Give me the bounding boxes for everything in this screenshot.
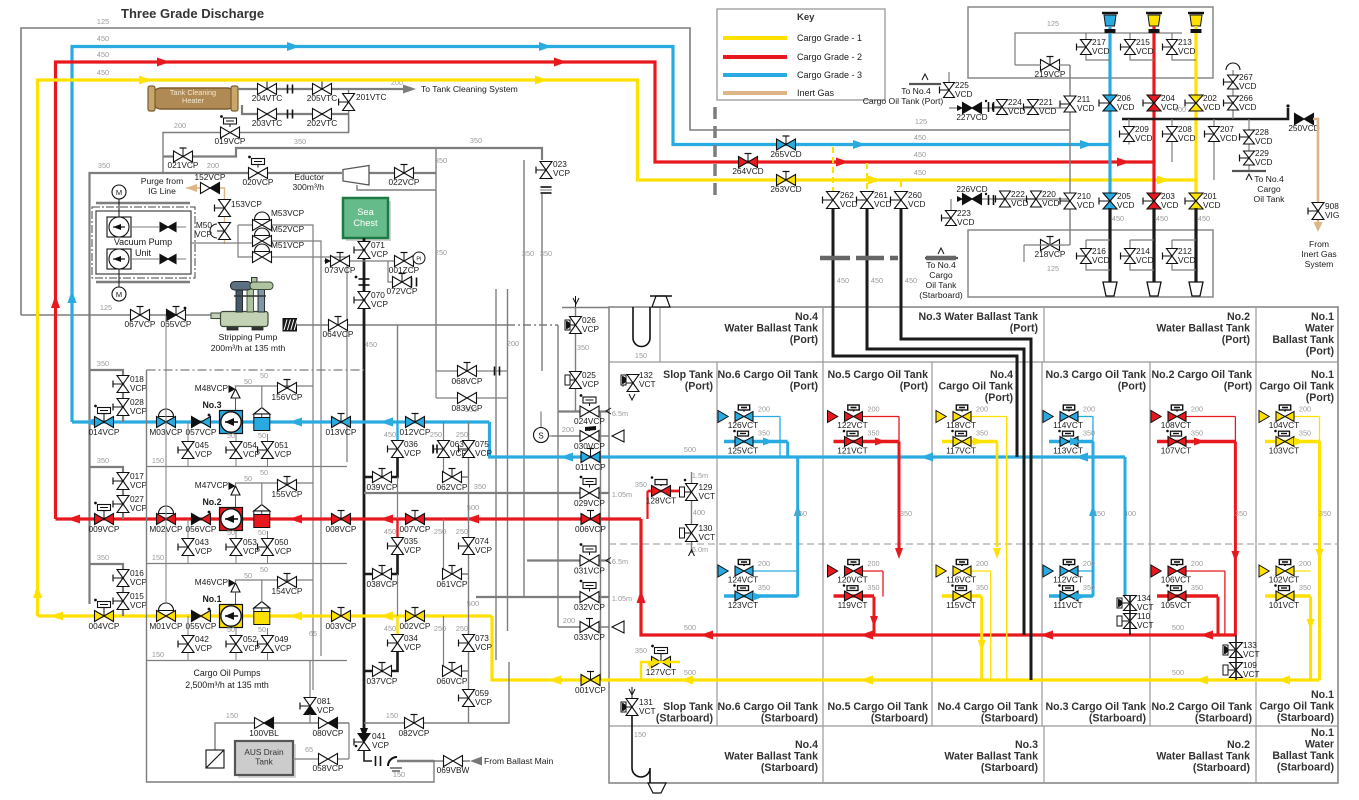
svg-text:105VCT: 105VCT — [1161, 600, 1191, 610]
svg-text:Unit: Unit — [135, 248, 152, 258]
svg-text:No.4: No.4 — [795, 311, 818, 323]
svg-text:200: 200 — [563, 616, 575, 625]
valve 202VTC — [313, 109, 323, 120]
svg-text:To No.4: To No.4 — [926, 260, 956, 270]
wire M-valve stem row 3 — [165, 316, 167, 409]
svg-text:Ballast Tank: Ballast Tank — [1272, 334, 1334, 346]
wire 032VCP stub — [476, 596, 609, 598]
valve 036VCP — [392, 441, 404, 450]
wire ladder blue stub — [396, 422, 398, 440]
svg-text:Cargo Grade - 3: Cargo Grade - 3 — [797, 70, 862, 80]
valve 214VCD — [1125, 249, 1136, 257]
svg-text:VCP: VCP — [475, 448, 493, 458]
svg-text:Oil Tank: Oil Tank — [1254, 194, 1286, 204]
valve 122VCT — [845, 412, 854, 422]
valve 155VCP — [278, 480, 288, 491]
valve 001VCP — [581, 675, 591, 686]
tank table inner column gooseneck — [659, 307, 661, 362]
svg-text:VCD: VCD — [1161, 200, 1179, 210]
wire black pipe 261 drop — [867, 209, 1024, 635]
valve 120VCT — [845, 566, 854, 576]
svg-text:350: 350 — [97, 359, 109, 368]
svg-text:060VCP: 060VCP — [437, 676, 468, 686]
strainer hatched box — [283, 319, 297, 332]
svg-text:450: 450 — [914, 133, 926, 142]
svg-text:(Port): (Port) — [790, 381, 818, 393]
wire 200 line 108VCT — [1186, 416, 1235, 418]
svg-text:113VCT: 113VCT — [1053, 446, 1083, 456]
valve 267VCD — [1228, 75, 1239, 82]
bypass loop top 217VCD — [1086, 33, 1110, 60]
wire ladder black Z row1 — [364, 652, 398, 671]
svg-text:VCD: VCD — [1039, 106, 1057, 116]
svg-text:VCP: VCP — [404, 448, 422, 458]
svg-text:50: 50 — [227, 625, 235, 634]
wire blue corner to tank mains — [490, 422, 1126, 457]
valve 263VCD — [777, 175, 787, 186]
svg-text:029VCP: 029VCP — [574, 498, 605, 508]
wire 200 line 106VCT — [1186, 570, 1225, 572]
wire drop 507 — [507, 289, 509, 631]
valve 132VCT — [627, 375, 639, 384]
valve 038VCP — [373, 569, 383, 580]
svg-text:VCP: VCP — [130, 406, 148, 416]
valve 119VCT — [845, 591, 854, 601]
svg-text:350: 350 — [97, 456, 109, 465]
svg-text:VCD: VCD — [1092, 255, 1110, 265]
svg-text:Slop Tank: Slop Tank — [663, 701, 713, 713]
valve 034VCP — [392, 635, 404, 644]
svg-text:Heater: Heater — [182, 96, 204, 105]
wire M51 line — [238, 225, 254, 257]
bellmouth funnel 1110 — [1103, 282, 1117, 296]
svg-text:VCP: VCP — [195, 546, 213, 556]
wire 350 line 111VCT — [1049, 594, 1093, 597]
svg-text:300m³/h: 300m³/h — [292, 182, 324, 192]
manifold lower box — [968, 230, 1213, 297]
valve 205VCD on riser — [1103, 193, 1117, 201]
wire yellow corner to bottom main — [492, 616, 1320, 680]
svg-text:(Starboard): (Starboard) — [656, 713, 713, 725]
valve 117VCT — [953, 437, 962, 447]
svg-text:450: 450 — [1156, 214, 1168, 223]
wire blue riser left — [72, 47, 1110, 423]
svg-text:Slop Tank: Slop Tank — [663, 369, 713, 381]
wire from ballast main — [397, 760, 434, 763]
svg-text:037VCP: 037VCP — [367, 676, 398, 686]
vacuum pump unit box — [96, 211, 191, 274]
valve 039VCP — [373, 472, 383, 483]
svg-text:VCP: VCP — [475, 697, 493, 707]
valve 073VCP — [331, 256, 341, 267]
svg-text:101VCT: 101VCT — [1269, 600, 1299, 610]
valve 110VCT — [1124, 614, 1137, 622]
svg-text:VCP: VCP — [195, 449, 213, 459]
svg-text:107VCT: 107VCT — [1161, 446, 1191, 456]
svg-text:VCT: VCT — [639, 379, 656, 389]
svg-text:350: 350 — [900, 509, 912, 518]
wire ladder black Z row3 — [364, 458, 398, 477]
svg-text:No.4: No.4 — [795, 739, 818, 751]
key line cargo grade 3 — [723, 73, 787, 77]
svg-text:VCD: VCD — [908, 199, 926, 209]
svg-text:003VCP: 003VCP — [326, 621, 357, 631]
valve 101VCT — [1276, 591, 1285, 601]
valve 134VCT — [1124, 596, 1137, 604]
svg-text:VIG: VIG — [1325, 210, 1339, 220]
funnel below table — [648, 783, 666, 793]
wire drop 524 — [523, 160, 525, 597]
valve 106VCT — [1168, 566, 1177, 576]
svg-text:150: 150 — [152, 456, 164, 465]
valve 072VCP — [393, 277, 403, 288]
svg-text:128VCT: 128VCT — [646, 496, 676, 506]
wire riser colored 1196 — [1194, 26, 1197, 208]
arrow from ballast main — [470, 757, 482, 766]
wire top frame 125 line — [21, 28, 1070, 315]
valve 203VCD on riser — [1147, 193, 1161, 201]
svg-text:250: 250 — [435, 248, 447, 257]
wire bypass row 1 — [236, 580, 314, 583]
wire 200 line 118VCT — [971, 416, 1007, 418]
svg-text:500: 500 — [684, 623, 696, 632]
wire 118 drop yellow — [1006, 417, 1008, 681]
wire 350 line 117VCT — [942, 440, 997, 443]
svg-text:021VCP: 021VCP — [168, 160, 199, 170]
svg-text:450: 450 — [837, 276, 849, 285]
svg-text:M: M — [116, 290, 122, 299]
funnel 030VCP — [612, 430, 624, 442]
svg-text:(Starboard): (Starboard) — [1089, 713, 1146, 725]
svg-text:219VCP: 219VCP — [1035, 69, 1066, 79]
svg-text:50: 50 — [258, 528, 266, 537]
svg-text:VCP: VCP — [130, 600, 148, 610]
wire purge IG tan line — [196, 188, 225, 244]
wire 558 drop line — [557, 325, 559, 627]
relief valve M47VCP — [231, 486, 240, 495]
svg-text:119VCT: 119VCT — [838, 600, 868, 610]
svg-text:204VTC: 204VTC — [252, 93, 282, 103]
svg-text:125: 125 — [1047, 19, 1059, 28]
stripping pump — [211, 313, 222, 319]
wire manifold center vertical — [1069, 65, 1071, 245]
valve 127VCT — [652, 657, 662, 668]
arrow to tank cleaning system — [355, 88, 403, 90]
svg-text:125: 125 — [97, 17, 109, 26]
svg-text:AUS Drain: AUS Drain — [244, 747, 284, 757]
manifold cap 217VCD — [1102, 12, 1118, 14]
valve 215VCD — [1125, 40, 1136, 48]
bypass loop bottom 216VCD — [1086, 240, 1110, 270]
valve 262VCD — [827, 192, 840, 201]
relief valve M48VCP — [231, 389, 240, 398]
valve 229VCD — [1244, 151, 1255, 158]
svg-text:Key: Key — [797, 12, 815, 23]
svg-text:067VCP: 067VCP — [125, 319, 156, 329]
svg-text:From Ballast Main: From Ballast Main — [484, 756, 553, 766]
svg-text:6.5m: 6.5m — [612, 409, 628, 418]
svg-text:121VCT: 121VCT — [837, 446, 867, 456]
wire 082VCP line — [364, 662, 509, 723]
wire suction stub row 3 — [90, 370, 124, 422]
valve 049VCP — [262, 636, 274, 645]
svg-text:50: 50 — [244, 377, 252, 386]
svg-text:002VCP: 002VCP — [400, 621, 431, 631]
svg-text:013VCP: 013VCP — [326, 427, 357, 437]
svg-text:No.6 Cargo Oil Tank: No.6 Cargo Oil Tank — [718, 369, 819, 381]
valve 017VCP — [117, 473, 129, 482]
wire 350 line 107VCT — [1157, 440, 1235, 443]
wire 001ZCP line — [364, 260, 416, 262]
valve 225VCD — [948, 72, 950, 90]
wire 115 drop yellow — [980, 597, 983, 681]
wire ladder feed 450 — [397, 325, 399, 422]
svg-text:350: 350 — [470, 136, 482, 145]
svg-text:006VCP: 006VCP — [575, 524, 606, 534]
svg-text:061VCP: 061VCP — [437, 579, 468, 589]
svg-text:450: 450 — [1112, 214, 1124, 223]
valve 126VCT — [735, 412, 744, 422]
svg-text:350: 350 — [1235, 509, 1247, 518]
pump room boundary dash top — [147, 369, 365, 371]
valve 024VCP — [580, 406, 590, 417]
svg-text:031VCP: 031VCP — [574, 566, 605, 576]
svg-text:450: 450 — [914, 150, 926, 159]
wire manifold stbd header y199 — [958, 198, 1070, 200]
valve 203VTC — [258, 109, 268, 120]
valve 123VCT — [735, 591, 744, 601]
wire dashed yellow drop 260 — [900, 181, 902, 192]
wire yellow main pump room — [38, 614, 493, 617]
svg-text:218VCP: 218VCP — [1035, 249, 1066, 259]
wire 134VCT to red main — [1129, 595, 1131, 635]
valve 004VCP — [95, 611, 105, 622]
valve 108VCT — [1168, 412, 1177, 422]
tank table column Slop|No6 — [716, 362, 718, 726]
caps after 203VTC — [287, 110, 289, 119]
wire 058VCP line — [293, 758, 349, 760]
svg-text:500: 500 — [684, 668, 696, 677]
valve 059VCP — [463, 690, 475, 699]
svg-text:055VCP: 055VCP — [186, 621, 217, 631]
vacuum pump 1 — [107, 217, 131, 237]
svg-text:012VCP: 012VCP — [400, 427, 431, 437]
wire table top stub — [562, 307, 609, 309]
svg-text:080VCP: 080VCP — [313, 728, 344, 738]
tank table column No3|No2 — [1149, 362, 1151, 726]
wire 072VCP branch — [388, 261, 412, 282]
valve 041VCP — [360, 728, 368, 738]
wire 350 line 103VCT — [1265, 440, 1320, 443]
valve 030VCP — [580, 431, 590, 442]
svg-text:No.2: No.2 — [1227, 739, 1250, 751]
svg-text:112VCT: 112VCT — [1053, 575, 1083, 585]
svg-text:VCP: VCP — [404, 545, 422, 555]
valve 209VCD drop — [1128, 119, 1130, 145]
svg-text:VCD: VCD — [1178, 255, 1196, 265]
svg-text:125: 125 — [1047, 264, 1059, 273]
valve 224VCD — [988, 102, 990, 112]
arrows into pumps — [289, 418, 302, 427]
svg-text:150: 150 — [386, 711, 398, 720]
svg-text:1.05m: 1.05m — [612, 490, 632, 499]
valve 227VCD — [963, 103, 973, 114]
drain manifold row 3 — [147, 466, 348, 468]
wire 350 line 119VCT — [834, 594, 875, 597]
bell mouth 114VCT — [1043, 411, 1053, 423]
svg-text:PI: PI — [416, 257, 422, 263]
svg-text:Inert Gas: Inert Gas — [797, 88, 835, 98]
svg-text:200: 200 — [1083, 405, 1095, 414]
svg-text:083VCP: 083VCP — [452, 403, 483, 413]
svg-text:030VCP: 030VCP — [574, 441, 605, 451]
wire riser colored 1110 — [1108, 26, 1111, 208]
svg-text:200: 200 — [1299, 559, 1311, 568]
svg-text:200: 200 — [976, 405, 988, 414]
svg-text:155VCP: 155VCP — [272, 489, 303, 499]
svg-text:No.1: No.1 — [1311, 689, 1334, 701]
valve 056VCP — [192, 514, 202, 525]
wire 114/113 drop blue — [1092, 417, 1094, 442]
svg-text:Sea: Sea — [357, 207, 374, 217]
wire 119 drop red — [873, 597, 876, 636]
svg-text:350: 350 — [758, 583, 770, 592]
bypass loop bottom 214VCD — [1130, 240, 1154, 270]
arrow purge from IG — [186, 184, 197, 192]
wire manifold inner top line — [1015, 33, 1182, 65]
wire black 400 header — [1122, 108, 1288, 119]
wire 200 line 112VCT — [1078, 570, 1093, 572]
svg-text:(Port): (Port) — [685, 381, 713, 393]
svg-text:VCP: VCP — [372, 740, 390, 750]
svg-text:350: 350 — [1299, 583, 1311, 592]
svg-text:250: 250 — [456, 430, 468, 439]
valve 104VCT — [1276, 412, 1285, 422]
svg-text:115VCT: 115VCT — [946, 600, 976, 610]
wire 127VCT yellow — [641, 662, 680, 680]
wire drop 436 — [435, 148, 437, 371]
svg-text:123VCT: 123VCT — [728, 600, 758, 610]
svg-text:201VTC: 201VTC — [356, 92, 386, 102]
svg-text:250: 250 — [456, 527, 468, 536]
svg-text:VCD: VCD — [1255, 136, 1273, 146]
svg-text:450: 450 — [1198, 214, 1210, 223]
svg-text:057VCP: 057VCP — [186, 427, 217, 437]
wire 350 line 121VCT — [834, 440, 900, 443]
svg-text:Cargo: Cargo — [1257, 184, 1281, 194]
svg-text:Vacuum Pump: Vacuum Pump — [114, 237, 172, 247]
svg-text:350: 350 — [1299, 429, 1311, 438]
valve 116VCT — [953, 566, 962, 576]
wire 133VCT crossover — [1235, 635, 1237, 680]
svg-text:350: 350 — [635, 480, 647, 489]
wire 064 dash line — [349, 324, 507, 326]
svg-text:VCP: VCP — [130, 503, 148, 513]
wire 350 line 101VCT — [1265, 594, 1311, 597]
svg-text:062VCP: 062VCP — [437, 482, 468, 492]
svg-text:No.2 Cargo Oil Tank: No.2 Cargo Oil Tank — [1152, 701, 1253, 713]
svg-text:Chest: Chest — [353, 218, 378, 228]
wire ballast inlet — [364, 750, 372, 761]
valve 201VTC — [343, 94, 355, 103]
svg-text:(Starboard): (Starboard) — [1195, 713, 1252, 725]
svg-text:058VCP: 058VCP — [313, 763, 344, 773]
wire 218 line — [1024, 244, 1070, 246]
key line cargo grade 1 — [723, 36, 787, 40]
valve 082VCP — [405, 718, 415, 729]
svg-text:No.2 Cargo Oil Tank: No.2 Cargo Oil Tank — [1152, 369, 1253, 381]
wire 031VCP stub — [527, 559, 609, 561]
svg-text:117VCT: 117VCT — [946, 446, 976, 456]
valve M50VCP — [219, 223, 231, 232]
bell mouth 124VCT — [718, 565, 728, 577]
wire inert gas tan — [1313, 119, 1318, 228]
svg-text:200: 200 — [976, 559, 988, 568]
svg-text:No.2: No.2 — [1227, 311, 1250, 323]
wire suction stub row 2 — [90, 467, 124, 519]
bell mouth 102VCT — [1259, 565, 1269, 577]
valve 035VCP — [392, 538, 404, 547]
svg-text:VCP: VCP — [475, 545, 493, 555]
svg-text:Tank: Tank — [255, 757, 273, 767]
valve 018VCP — [117, 376, 129, 385]
svg-text:450: 450 — [384, 527, 396, 536]
caps after 204VTC — [287, 85, 289, 94]
svg-text:50: 50 — [260, 371, 268, 380]
arrows on tank mains — [560, 453, 573, 462]
svg-text:(Starboard): (Starboard) — [761, 762, 818, 774]
svg-text:450: 450 — [384, 430, 396, 439]
svg-text:System: System — [1305, 259, 1334, 269]
svg-text:100VBL: 100VBL — [249, 728, 279, 738]
wire ladder gray verticals — [397, 477, 399, 519]
svg-text:500: 500 — [1172, 668, 1184, 677]
svg-text:65: 65 — [309, 629, 317, 638]
svg-text:039VCP: 039VCP — [367, 482, 398, 492]
valve 023VCP — [540, 162, 552, 171]
svg-text:VCD: VCD — [1117, 200, 1135, 210]
wire 200 line 124VCT — [753, 570, 798, 572]
valve 068VCP box — [436, 371, 490, 398]
svg-text:122VCT: 122VCT — [837, 420, 867, 430]
valve 028VCP — [117, 399, 129, 408]
svg-text:No.4 Cargo Oil Tank: No.4 Cargo Oil Tank — [938, 701, 1039, 713]
eductor — [343, 166, 369, 186]
svg-text:VCT: VCT — [1137, 620, 1154, 630]
svg-text:(Starboard): (Starboard) — [1277, 762, 1334, 774]
tank table WBT columns — [822, 307, 824, 362]
AUS drain tank — [238, 744, 296, 778]
svg-text:65: 65 — [305, 745, 313, 754]
valve 029VCP — [580, 488, 590, 499]
relief valve M46VCP — [231, 583, 240, 592]
wire 200 line 114VCT — [1078, 416, 1093, 418]
tank table column No6|No5 — [822, 362, 824, 726]
tank table column No4|No3 — [1041, 362, 1043, 726]
svg-text:VCD: VCD — [1042, 198, 1060, 208]
svg-text:350: 350 — [758, 429, 770, 438]
valve 037VCP — [373, 666, 383, 677]
svg-text:Water Ballast Tank: Water Ballast Tank — [1156, 751, 1250, 763]
svg-text:069VBW: 069VBW — [437, 765, 470, 775]
svg-text:No.4: No.4 — [990, 369, 1013, 381]
sounding S circle — [540, 412, 542, 428]
svg-text:033VCP: 033VCP — [574, 632, 605, 642]
svg-text:From: From — [1309, 239, 1329, 249]
valve 009VCP — [95, 514, 105, 525]
valve 042VCP — [182, 636, 194, 645]
svg-text:103VCT: 103VCT — [1269, 446, 1299, 456]
